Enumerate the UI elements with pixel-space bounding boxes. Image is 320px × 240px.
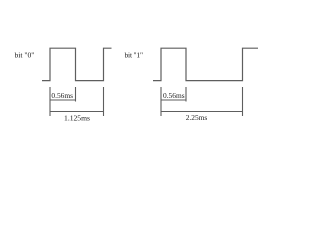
svg-text:bit "1": bit "1" (125, 50, 143, 59)
svg-text:1.125ms: 1.125ms (64, 114, 90, 123)
bit 0 dimension tick left (49, 87, 51, 116)
bit 0 dimension tick middle (75, 87, 77, 102)
bit 1 dimension tick middle (185, 87, 187, 102)
bit 1 dimension tick left (160, 87, 162, 116)
bit 1 dimension tick right (242, 87, 244, 116)
bit "1" label (125, 50, 143, 59)
bit 0 dimension tick right (103, 87, 105, 116)
bit "0" label (15, 50, 35, 59)
bit 0 waveform wire (42, 48, 112, 80)
bit 1 pulse width value 0.56ms (163, 91, 185, 100)
svg-text:2.25ms: 2.25ms (186, 113, 208, 122)
bit 1 waveform wire (153, 48, 258, 80)
bit 1 period value 2.25ms (186, 113, 208, 122)
svg-text:0.56ms: 0.56ms (51, 91, 73, 100)
svg-text:0.56ms: 0.56ms (163, 91, 185, 100)
bit 0 period dimension line (50, 111, 104, 113)
bit 1 pulse width dimension line (161, 99, 186, 101)
bit 0 pulse width dimension line (50, 99, 76, 101)
bit 0 pulse width value 0.56ms (51, 91, 73, 100)
bit 0 period value 1.125ms (64, 114, 90, 123)
svg-text:bit "0": bit "0" (15, 50, 35, 59)
bit 1 period dimension line (161, 111, 243, 113)
